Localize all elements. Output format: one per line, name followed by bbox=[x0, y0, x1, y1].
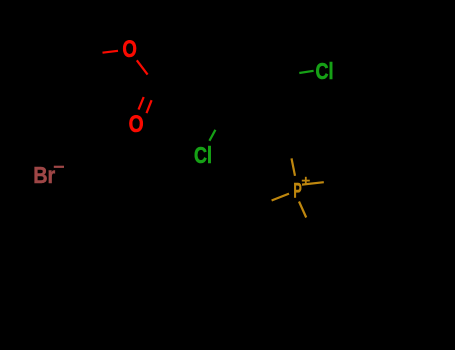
svg-text:O: O bbox=[129, 111, 144, 138]
svg-text:Br: Br bbox=[33, 162, 55, 188]
svg-text:Cl: Cl bbox=[316, 58, 334, 84]
svg-text:P: P bbox=[293, 178, 302, 202]
svg-text:Cl: Cl bbox=[194, 142, 212, 168]
svg-text:O: O bbox=[122, 36, 137, 63]
